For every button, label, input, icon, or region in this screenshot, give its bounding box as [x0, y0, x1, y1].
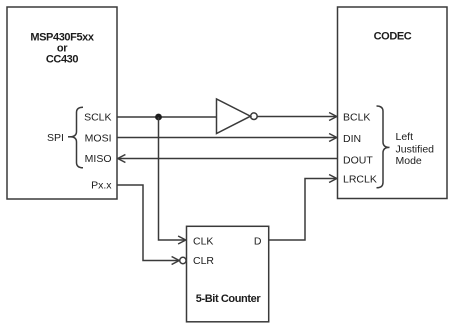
block U3 5-Bit Counter — [187, 226, 269, 321]
arrow into DIN — [329, 134, 337, 142]
svg-text:Mode: Mode — [396, 155, 422, 167]
svg-text:5-Bit Counter: 5-Bit Counter — [196, 293, 262, 305]
svg-text:DOUT: DOUT — [343, 154, 373, 166]
svg-text:CC430: CC430 — [46, 54, 79, 66]
wire SCLK: U1 to inverter input — [117, 116, 217, 118]
tick SPI to brace — [68, 136, 71, 138]
svg-text:MOSI: MOSI — [85, 132, 112, 144]
inverter U4 triangle — [217, 99, 251, 134]
svg-text:D: D — [254, 236, 262, 248]
block U2 CODEC — [338, 7, 448, 199]
wire MOSI to DIN — [117, 137, 337, 139]
brace SPI group — [70, 107, 83, 168]
wire inverter output to BCLK — [257, 116, 337, 118]
arrow into MISO — [118, 155, 126, 163]
arrow into BCLK — [329, 113, 337, 121]
wire DOUT to MISO — [118, 158, 338, 160]
svg-text:MISO: MISO — [85, 153, 112, 165]
svg-text:CLK: CLK — [193, 236, 213, 248]
svg-text:BCLK: BCLK — [343, 111, 370, 123]
svg-text:Px.x: Px.x — [91, 180, 112, 192]
wire SCLK branch to CLK — [159, 117, 186, 240]
brace Left Justified Mode group — [377, 106, 390, 188]
inverter U4 bubble — [251, 113, 258, 120]
svg-text:DIN: DIN — [343, 133, 361, 145]
junction on SCLK wire — [155, 114, 162, 121]
svg-text:Justified: Justified — [396, 143, 435, 155]
svg-text:Left: Left — [396, 131, 414, 143]
block U1 MSP430F5xx/CC430 — [7, 7, 117, 199]
svg-text:LRCLK: LRCLK — [343, 173, 377, 185]
label Left Justified Mode — [396, 131, 435, 167]
label MSP430F5xx or CC430 — [30, 32, 95, 66]
bubble on CLR input — [180, 257, 186, 263]
arrow into CLK — [178, 236, 186, 244]
wire Px.x to CLR (down and right) — [117, 185, 179, 261]
wire D output to LRCLK — [269, 179, 337, 241]
arrow into CLR bubble — [172, 257, 180, 265]
svg-text:CLR: CLR — [193, 255, 214, 267]
svg-text:SPI: SPI — [47, 132, 64, 144]
svg-text:CODEC: CODEC — [374, 31, 412, 43]
arrow into LRCLK — [329, 175, 337, 183]
svg-text:SCLK: SCLK — [84, 111, 111, 123]
